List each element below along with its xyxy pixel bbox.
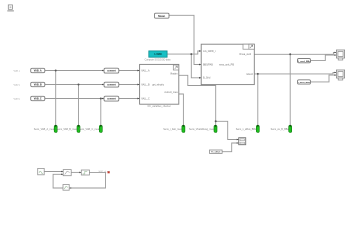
svg-text:Compute SOC/DOD data: Compute SOC/DOD data <box>145 59 172 62</box>
svg-text:BBS/PAB: BBS/PAB <box>203 63 213 66</box>
svg-text:Sens_v_aBus_BBs: Sens_v_aBus_BBs <box>236 128 257 131</box>
svg-text:VALL_B: VALL_B <box>141 83 150 86</box>
svg-text:get_electric: get_electric <box>152 83 165 86</box>
svg-text:VAB_A: VAB_A <box>34 69 42 72</box>
svg-text:Sens_VAB_B_mea: Sens_VAB_B_mea <box>57 128 78 131</box>
svg-text:mA_GRID_i: mA_GRID_i <box>203 50 216 53</box>
svg-text:mAvrd: mAvrd <box>246 73 253 76</box>
svg-text:Vab2 s: Vab2 s <box>14 84 22 86</box>
svg-text:Vbattm: Vbattm <box>170 73 177 76</box>
svg-text:VAB_B: VAB_B <box>34 83 42 86</box>
svg-text:Sens_Vbattdbusg_mea: Sens_Vbattdbusg_mea <box>189 128 215 131</box>
svg-text:Vab3 s: Vab3 s <box>14 98 22 100</box>
svg-text:VALL_C: VALL_C <box>141 97 150 100</box>
svg-text:Sens_i_batt_mea: Sens_i_batt_mea <box>163 128 182 131</box>
svg-text:Mean: Mean <box>158 14 165 18</box>
svg-text:B_Grid: B_Grid <box>203 77 211 80</box>
svg-text:DC_variables_checker: DC_variables_checker <box>148 105 171 108</box>
svg-text:Ts_offset: Ts_offset <box>211 151 220 154</box>
svg-text:V_avrd_BBs: V_avrd_BBs <box>298 61 312 63</box>
svg-text:convert: convert <box>107 97 116 100</box>
svg-text:Sens_VAB_A_mea: Sens_VAB_A_mea <box>34 128 55 131</box>
svg-text:Sens_VAB_C_mea: Sens_VAB_C_mea <box>79 128 100 131</box>
svg-text:VALL_A: VALL_A <box>141 69 150 72</box>
svg-text:Sens_av_B_BBs: Sens_av_B_BBs <box>271 128 290 131</box>
svg-text:mea_unit_PB: mea_unit_PB <box>219 63 234 66</box>
svg-text:VAB_C: VAB_C <box>34 97 42 100</box>
svg-text:I_avrd_BBs: I_avrd_BBs <box>298 82 311 84</box>
svg-text:current_mea: current_mea <box>164 91 178 94</box>
svg-text:Vab1 s: Vab1 s <box>14 70 22 72</box>
svg-text:convert: convert <box>107 69 116 72</box>
svg-text:Vmea_avrd: Vmea_avrd <box>239 53 252 56</box>
svg-text:convert: convert <box>107 83 116 86</box>
svg-text:1.0986: 1.0986 <box>154 53 162 56</box>
